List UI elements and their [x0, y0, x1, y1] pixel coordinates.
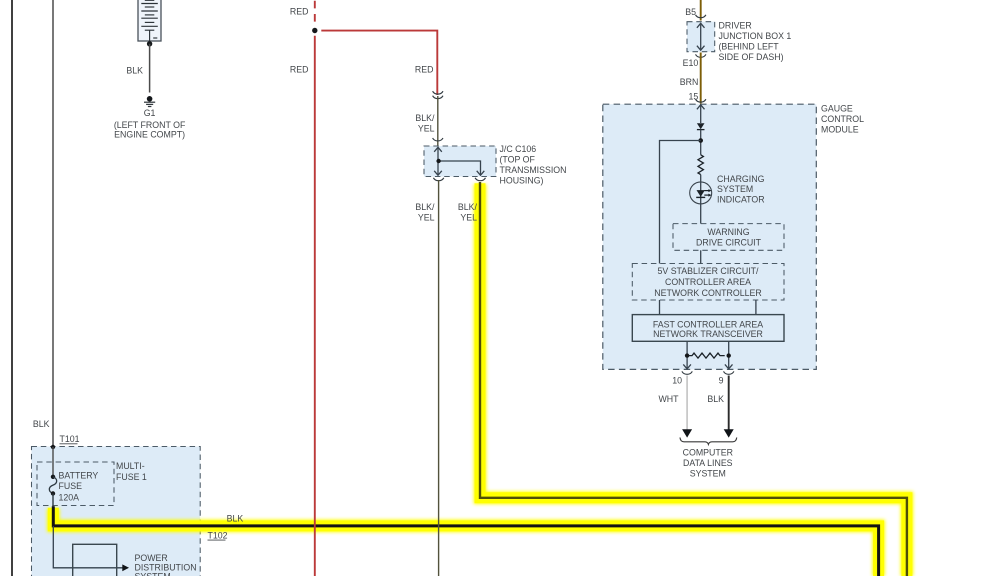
- svg-text:BLK: BLK: [707, 394, 724, 404]
- svg-text:NETWORK TRANSCEIVER: NETWORK TRANSCEIVER: [653, 329, 763, 339]
- GCM pin 10 arrow: [683, 364, 691, 369]
- svg-text:BLK: BLK: [33, 419, 50, 429]
- svg-text:BLK: BLK: [126, 66, 143, 76]
- 5v stablizer box: [632, 264, 784, 301]
- GCM pin 9 arrow: [725, 364, 733, 369]
- connector arc above GCM: [696, 99, 706, 102]
- svg-text:SIDE OF DASH): SIDE OF DASH): [719, 52, 784, 62]
- highlighted wire path 1 (BLK/YEL from J/C C106) glow: [480, 184, 907, 576]
- wire diode to resistor: [700, 130, 702, 155]
- svg-text:120A: 120A: [59, 492, 80, 502]
- junction dot node: [698, 138, 703, 143]
- junction dot right: [727, 353, 731, 357]
- wire LED to warning box: [700, 204, 702, 224]
- gauge control module fill: [603, 104, 817, 369]
- svg-text:(BEHIND LEFT: (BEHIND LEFT: [719, 41, 780, 51]
- svg-text:5V STABLIZER CIRCUIT/: 5V STABLIZER CIRCUIT/: [657, 266, 759, 276]
- svg-text:BLK/: BLK/: [415, 113, 435, 123]
- J/C C106 internal pins: [434, 147, 484, 175]
- connector arc below DJB: [696, 54, 706, 57]
- svg-text:SYSTEM: SYSTEM: [690, 468, 726, 478]
- wire resistor to LED: [700, 175, 702, 182]
- gauge control module border: [603, 104, 817, 369]
- arrow end BLK: [724, 429, 734, 437]
- svg-text:J/C C106: J/C C106: [500, 144, 537, 154]
- svg-text:TRANSMISSION: TRANSMISSION: [500, 165, 567, 175]
- svg-text:T102: T102: [208, 530, 228, 540]
- ground G1: [144, 96, 155, 107]
- svg-text:GAUGE: GAUGE: [821, 104, 853, 114]
- junction connector J/C C106 border: [424, 146, 496, 177]
- battery B1: [138, 0, 161, 41]
- box borders: [32, 22, 817, 576]
- svg-text:WARNING: WARNING: [707, 227, 749, 237]
- brace computer data lines: [680, 438, 737, 445]
- svg-text:10: 10: [672, 376, 682, 386]
- connector arc above J/C box: [433, 138, 443, 141]
- FAST transceiver box: [632, 315, 784, 342]
- svg-text:RED: RED: [290, 7, 309, 17]
- warning drive circuit box: [673, 224, 784, 251]
- GCM pin 15 arrow: [697, 105, 705, 123]
- multi-fuse box fill: [32, 447, 201, 576]
- svg-text:YEL: YEL: [418, 213, 435, 223]
- connector arc above DJB: [696, 15, 706, 18]
- BRN feed wire from top: [700, 0, 702, 21]
- J/C junction dot: [436, 159, 440, 163]
- wire BLK/YEL connector to J/C C106: [437, 96, 439, 146]
- DJB internal pin double arrow: [697, 23, 705, 50]
- svg-text:JUNCTION BOX 1: JUNCTION BOX 1: [719, 31, 792, 41]
- svg-text:BLK/: BLK/: [458, 202, 478, 212]
- arrow end WHT: [682, 429, 692, 437]
- driver junction box 1 fill: [687, 22, 715, 52]
- wire BRN to gauge control module: [700, 53, 702, 104]
- svg-text:T101: T101: [60, 434, 80, 444]
- svg-text:(TOP OF: (TOP OF: [500, 154, 536, 164]
- left black vertical wire: [11, 0, 13, 576]
- highlighted wire path 2 (BLK from battery fuse) glow: [53, 509, 878, 576]
- svg-text:BATTERY: BATTERY: [59, 471, 99, 481]
- svg-text:(LEFT FRONT OF: (LEFT FRONT OF: [114, 120, 186, 130]
- svg-text:SYSTEM: SYSTEM: [717, 184, 753, 194]
- svg-text:MODULE: MODULE: [821, 125, 859, 135]
- svg-text:MULTI-: MULTI-: [116, 461, 145, 471]
- multi-fuse 1 outer border: [32, 447, 201, 576]
- wires FAST box down to pins: [687, 341, 729, 368]
- wire BLK: [728, 376, 730, 431]
- svg-text:DRIVE CIRCUIT: DRIVE CIRCUIT: [696, 238, 762, 248]
- svg-text:DRIVER: DRIVER: [719, 20, 752, 30]
- connector arcs below GCM: [682, 371, 692, 374]
- junction dot left: [685, 353, 689, 357]
- battery terminal junction dot: [147, 41, 152, 46]
- battery fuse inner border: [37, 462, 114, 506]
- svg-text:WHT: WHT: [658, 394, 679, 404]
- node junction dot: [312, 28, 317, 33]
- highlighted wire path 1 band: [480, 183, 907, 576]
- svg-text:9: 9: [719, 376, 724, 386]
- driver junction box 1 border: [687, 22, 715, 52]
- svg-text:RED: RED: [415, 64, 434, 74]
- inline connector arcs: [433, 91, 443, 94]
- branch wire to 5V stablizer: [660, 141, 701, 264]
- J/C C106 fill: [424, 146, 496, 177]
- red feed dashed wire: [314, 1, 316, 22]
- branch wire to power distribution: [53, 526, 122, 568]
- arrow to power distribution system: [122, 564, 129, 571]
- wire BLK/YEL thin vertical full height: [438, 180, 440, 576]
- svg-text:DATA LINES: DATA LINES: [683, 458, 733, 468]
- red wire horizontal to alternator branch: [321, 31, 437, 95]
- connector arcs below J/C box: [433, 178, 443, 181]
- wire fuse to highlight start: [52, 494, 54, 507]
- svg-text:NETWORK CONTROLLER: NETWORK CONTROLLER: [654, 288, 762, 298]
- svg-text:YEL: YEL: [460, 213, 477, 223]
- svg-text:INDICATOR: INDICATOR: [717, 194, 765, 204]
- battery negative BLK vertical wire: [52, 0, 54, 447]
- wire into fuse: [52, 447, 54, 475]
- wire battery to ground: [149, 44, 151, 93]
- junction dot T101: [51, 445, 55, 449]
- svg-text:COMPUTER: COMPUTER: [683, 448, 733, 458]
- svg-text:POWER: POWER: [135, 553, 168, 563]
- red wire vertical down: [314, 36, 316, 576]
- svg-text:SYSTEM: SYSTEM: [135, 572, 171, 576]
- battery fuse element: [51, 475, 55, 479]
- svg-text:ENGINE COMPT): ENGINE COMPT): [114, 130, 185, 140]
- svg-text:BLK: BLK: [227, 514, 244, 524]
- svg-text:BLK/: BLK/: [415, 202, 435, 212]
- svg-text:YEL: YEL: [418, 124, 435, 134]
- svg-text:HOUSING): HOUSING): [500, 175, 544, 185]
- svg-text:CONTROLLER AREA: CONTROLLER AREA: [665, 277, 751, 287]
- svg-text:RED: RED: [290, 64, 309, 74]
- svg-text:B5: B5: [685, 7, 696, 17]
- wire core BLK/YEL path 1: [480, 182, 907, 576]
- svg-text:15: 15: [689, 92, 699, 102]
- svg-text:BRN: BRN: [680, 77, 699, 87]
- diode: [697, 123, 705, 129]
- svg-text:E10: E10: [683, 58, 699, 68]
- resistor R vertical: [698, 155, 703, 175]
- svg-text:FUSE 1: FUSE 1: [116, 472, 147, 482]
- termination resistor horizontal: [687, 353, 725, 358]
- wire warning box to 5V box: [700, 250, 702, 263]
- svg-text:FUSE: FUSE: [59, 481, 83, 491]
- svg-text:CONTROL: CONTROL: [821, 114, 864, 124]
- svg-text:G1: G1: [144, 108, 156, 118]
- svg-text:FAST CONTROLLER AREA: FAST CONTROLLER AREA: [653, 319, 763, 329]
- wire core BLK path 2: [53, 506, 878, 576]
- highlighted wire path 2 band: [53, 508, 878, 576]
- module fills: [32, 22, 817, 576]
- charging system indicator LED: [690, 182, 712, 204]
- svg-text:CHARGING: CHARGING: [717, 174, 765, 184]
- wire WHT: [686, 376, 688, 431]
- power distribution component box: [73, 544, 117, 576]
- wires 5V box to FAST box: [660, 300, 756, 315]
